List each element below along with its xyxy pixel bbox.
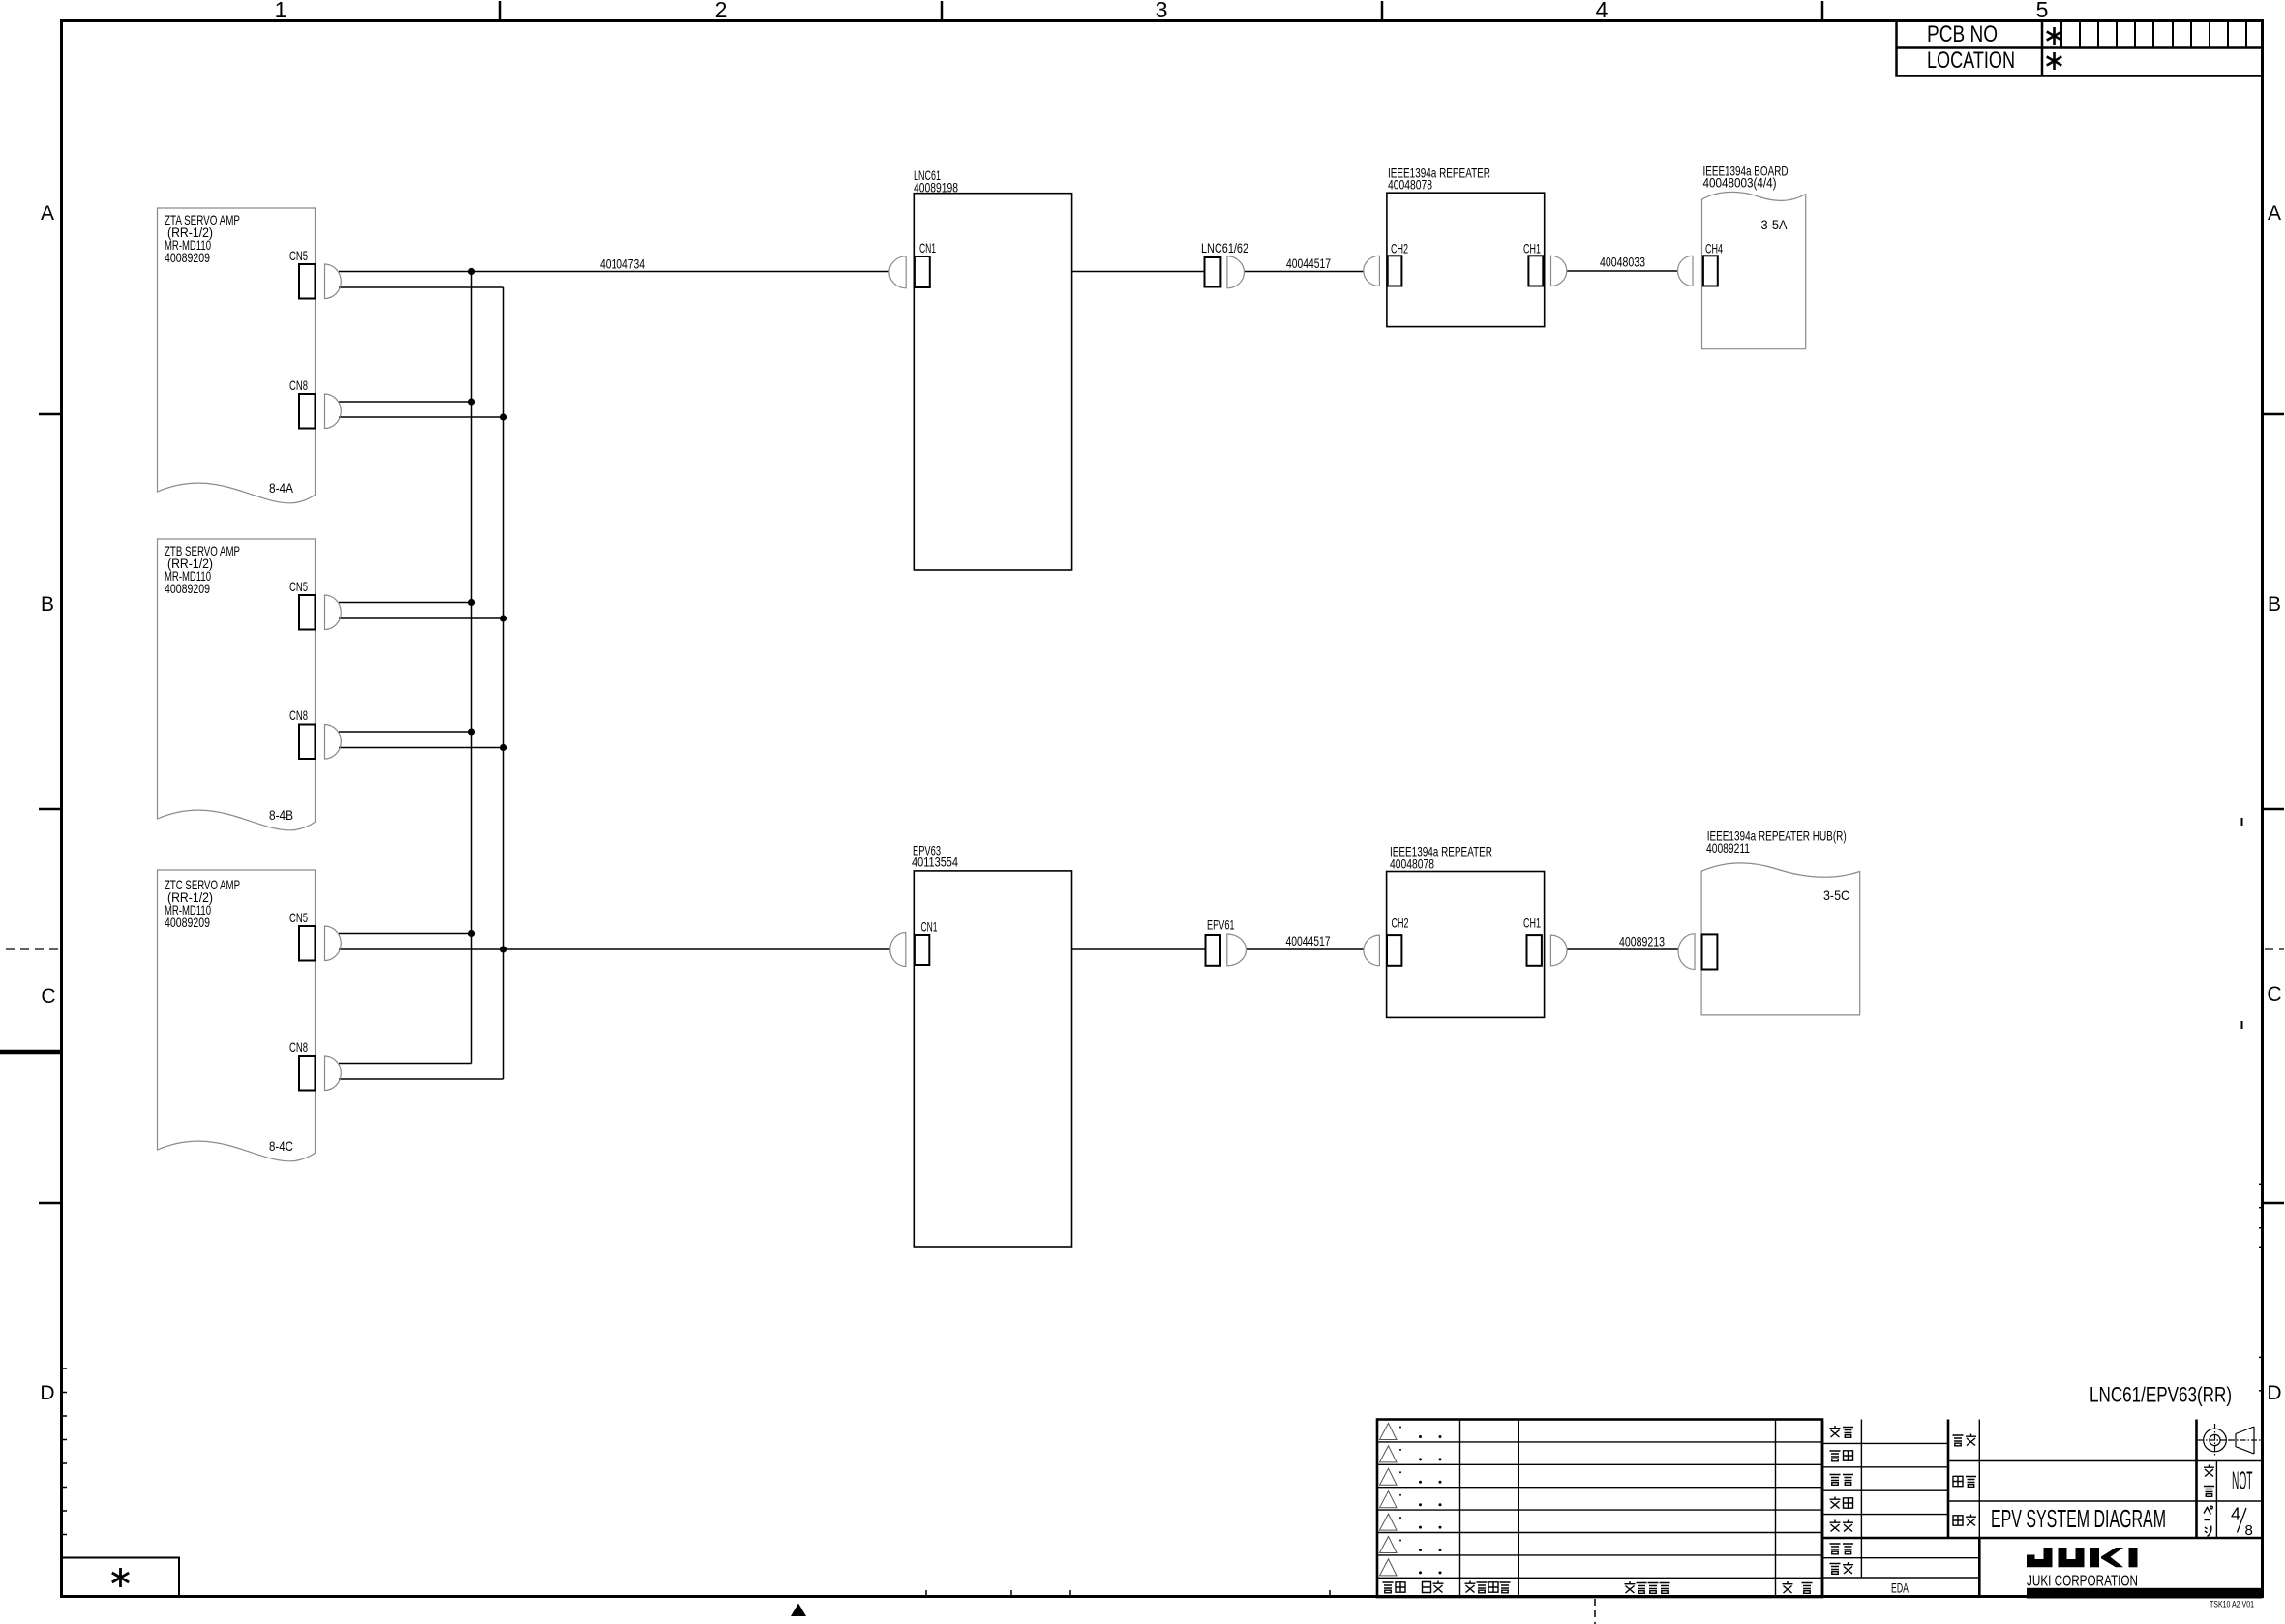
svg-text:40044517: 40044517 xyxy=(1286,933,1331,948)
block IEEE1394a REPEATER bottom xyxy=(1387,844,1567,1018)
svg-text:40048033: 40048033 xyxy=(1600,255,1645,270)
svg-text:3: 3 xyxy=(1156,0,1168,22)
svg-text:5: 5 xyxy=(2036,0,2049,22)
JUKI logo xyxy=(2027,1548,2138,1567)
svg-text:B: B xyxy=(2268,593,2281,616)
svg-text:CN5: CN5 xyxy=(289,579,308,594)
svg-text:3-5A: 3-5A xyxy=(1761,217,1789,232)
svg-text:NOT: NOT xyxy=(2232,1466,2253,1495)
svg-text:4: 4 xyxy=(2231,1505,2240,1524)
small I marks right xyxy=(2241,818,2243,826)
svg-text:40048003(4/4): 40048003(4/4) xyxy=(1703,175,1777,191)
svg-text:CH1: CH1 xyxy=(1523,241,1541,256)
junction ZTB CN8 / bus A xyxy=(468,728,475,735)
thick half mark left xyxy=(0,1050,62,1055)
block IEEE1394a REPEATER HUB(R) xyxy=(1701,828,1860,1015)
junction ZTA CN5 / bus A xyxy=(468,268,475,275)
svg-text:TSK10 A2 V01: TSK10 A2 V01 xyxy=(2210,1600,2254,1610)
svg-text:A: A xyxy=(41,202,54,225)
svg-text:40048078: 40048078 xyxy=(1388,177,1432,193)
svg-text:B: B xyxy=(41,593,54,616)
block LNC61 xyxy=(889,167,1072,570)
connector into repeater CH2 (mirrored D) xyxy=(1364,256,1380,286)
svg-text:JUKI CORPORATION: JUKI CORPORATION xyxy=(2027,1574,2138,1590)
wire ZTC CN8 top xyxy=(339,1063,472,1065)
connector (hub) xyxy=(1702,934,1718,969)
header row kanji: 記号 日付 変更番号 変更記事 担当 xyxy=(1383,1582,1394,1593)
scale / page labels xyxy=(2204,1465,2214,1477)
svg-text:8-4A: 8-4A xyxy=(269,480,294,496)
connector into board CH4 (mirrored D) xyxy=(1678,256,1694,286)
labels 承認/検図/設計/製図/作成/保管/類似 xyxy=(1830,1426,1841,1437)
column ticks top xyxy=(500,1,1822,20)
junction ZTB CN5 / bus B xyxy=(500,615,507,621)
wire ZTA CN8 bottom xyxy=(339,416,504,418)
connector into repeater CH2 bottom (mirrored D) xyxy=(1364,935,1379,966)
block IEEE1394a BOARD xyxy=(1702,164,1806,349)
svg-text:CN8: CN8 xyxy=(289,377,308,393)
svg-text:8-4C: 8-4C xyxy=(269,1138,293,1154)
approval table xyxy=(1822,1420,2263,1598)
wire ZTA CN5 top to LNC61 CN1 xyxy=(339,271,1678,1079)
wire ZTA CN8 top xyxy=(339,401,472,403)
junction ZTC CN5 / bus A xyxy=(468,930,475,937)
svg-text:40089209: 40089209 xyxy=(165,915,210,930)
junction ZTB CN5 / bus A xyxy=(468,599,475,606)
svg-text:LNC61/EPV63(RR): LNC61/EPV63(RR) xyxy=(2090,1383,2232,1407)
svg-text:CH2: CH2 xyxy=(1391,241,1408,256)
svg-text:4: 4 xyxy=(1596,0,1609,22)
wire ZTC CN5 top xyxy=(339,933,472,935)
svg-text:CN1: CN1 xyxy=(919,240,936,256)
third angle projection symbol xyxy=(2198,1424,2261,1457)
vertical bus B xyxy=(503,287,505,1079)
svg-text:EDA: EDA xyxy=(1891,1580,1909,1596)
svg-text:D: D xyxy=(40,1382,54,1404)
wire ZTB CN5 bottom xyxy=(339,617,504,619)
block ZTB SERVO AMP xyxy=(158,539,342,830)
row ticks left/right xyxy=(39,414,2284,1203)
wire ZTB CN8 bottom xyxy=(339,747,504,749)
wire repeater CH1 to board CH4 xyxy=(1567,270,1678,272)
svg-text:A: A xyxy=(2268,202,2281,225)
inner ruler ticks right border xyxy=(2259,1184,2263,1391)
junction ZTA CN8 / bus A xyxy=(468,398,475,405)
svg-text:40089209: 40089209 xyxy=(165,250,210,265)
tiny ticks on bottom border xyxy=(926,1590,1330,1597)
svg-text:2: 2 xyxy=(715,0,728,22)
svg-text:D: D xyxy=(2267,1382,2281,1404)
svg-text:1: 1 xyxy=(275,0,287,22)
wire ZTB CN5 top xyxy=(339,602,472,604)
asterisk box bottom-left xyxy=(62,1558,180,1597)
svg-text:40113554: 40113554 xyxy=(912,855,958,870)
wire ZTC CN8 bottom xyxy=(339,1078,504,1080)
bottom triangle mark xyxy=(791,1604,806,1617)
row labels xyxy=(40,202,2281,1404)
svg-text:8-4B: 8-4B xyxy=(269,807,293,823)
svg-text:PCB NO: PCB NO xyxy=(1927,21,1998,47)
svg-text:40048078: 40048078 xyxy=(1390,857,1434,872)
block EPV63 xyxy=(890,843,1072,1248)
wire ZTC CN5 bottom to EPV63 CN1 xyxy=(339,948,890,950)
black bar xyxy=(2027,1588,2263,1599)
svg-text:CH4: CH4 xyxy=(1705,241,1723,256)
svg-text:CN5: CN5 xyxy=(289,910,308,925)
revision triangles and dots xyxy=(1380,1424,1398,1576)
svg-text:C: C xyxy=(41,985,55,1007)
connector into hub (mirrored D) xyxy=(1678,934,1695,970)
column labels xyxy=(275,0,2049,22)
part-number table 型式/品番/品名 xyxy=(1948,1420,2263,1539)
block ZTA SERVO AMP xyxy=(158,208,342,503)
svg-text:CN8: CN8 xyxy=(289,1039,308,1055)
svg-text:CH2: CH2 xyxy=(1392,916,1409,931)
block ZTC SERVO AMP xyxy=(158,870,342,1161)
ruler ticks bottom-left xyxy=(61,1368,67,1535)
connector EPV61 (inline) xyxy=(1206,917,1247,966)
wire ZTA CN5 bottom to vertical B xyxy=(339,286,504,288)
svg-text:CN8: CN8 xyxy=(289,707,308,723)
page pe-ji vertical xyxy=(2204,1506,2212,1536)
svg-text:40089211: 40089211 xyxy=(1706,840,1750,856)
wire LNC61 to LNC61/62 xyxy=(1072,271,1205,273)
junction ZTB CN8 / bus B xyxy=(500,744,507,751)
revision table xyxy=(1377,1420,1822,1598)
svg-text:EPV61: EPV61 xyxy=(1207,917,1235,933)
wire LNC61/62 to repeater CH2 xyxy=(1245,271,1364,273)
svg-text:40089209: 40089209 xyxy=(165,581,210,596)
svg-text:40089213: 40089213 xyxy=(1619,934,1665,949)
svg-text:LOCATION: LOCATION xyxy=(1927,47,2015,74)
svg-text:40044517: 40044517 xyxy=(1286,256,1331,271)
junction ZTC CN5 / bus B xyxy=(500,946,507,952)
wire EPV61 to repeater CH2 xyxy=(1247,948,1365,950)
wire repeater CH1 to hub xyxy=(1567,948,1678,950)
svg-text:EPV SYSTEM DIAGRAM: EPV SYSTEM DIAGRAM xyxy=(1991,1504,2166,1533)
bottom dashed line xyxy=(1594,1599,1596,1624)
svg-text:CH1: CH1 xyxy=(1523,916,1541,931)
svg-text:3-5C: 3-5C xyxy=(1823,887,1849,903)
svg-text:C: C xyxy=(2267,983,2281,1006)
wire EPV63 to EPV61 xyxy=(1072,948,1206,950)
block IEEE1394a REPEATER top xyxy=(1387,165,1567,327)
svg-text:40104734: 40104734 xyxy=(600,256,645,272)
svg-text:CN5: CN5 xyxy=(289,248,308,263)
svg-text:40089198: 40089198 xyxy=(914,180,958,195)
svg-text:LNC61/62: LNC61/62 xyxy=(1201,240,1248,256)
junction ZTA CN8 / bus B xyxy=(500,413,507,420)
svg-text:CN1: CN1 xyxy=(921,919,938,935)
connector LNC61/62 (inline) xyxy=(1201,240,1248,288)
vertical bus A xyxy=(471,272,473,1064)
centre dashed marks xyxy=(6,948,2284,950)
wire ZTB CN8 top xyxy=(339,731,472,733)
svg-text:8: 8 xyxy=(2245,1522,2253,1539)
